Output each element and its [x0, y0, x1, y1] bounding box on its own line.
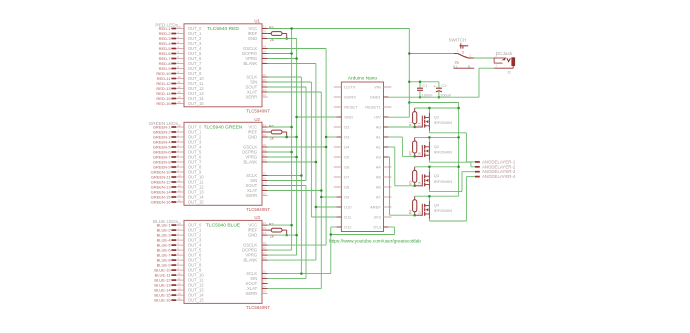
wire Q2 source	[415, 136, 459, 138]
svg-text:A5: A5	[376, 175, 382, 180]
wire U2 SCLK	[268, 175, 302, 177]
svg-text:A4: A4	[376, 165, 382, 170]
svg-text:18: 18	[263, 45, 267, 49]
wire U3 SIN	[268, 278, 306, 280]
svg-text:20: 20	[263, 128, 267, 132]
svg-text:27: 27	[263, 55, 267, 59]
svg-text:RESET: RESET	[344, 105, 358, 110]
svg-text:23: 23	[263, 158, 267, 162]
svg-text:10: 10	[177, 173, 181, 177]
svg-text:15: 15	[177, 297, 181, 301]
svg-text:D6: D6	[344, 165, 350, 170]
svg-text:VIN: VIN	[374, 85, 381, 90]
svg-text:A2: A2	[376, 145, 382, 150]
wire switch feed	[409, 53, 454, 55]
junction SCLK net	[300, 174, 303, 177]
svg-text:18: 18	[263, 241, 267, 245]
wire U2 SOUT	[268, 185, 306, 187]
junction VCC net	[290, 224, 293, 227]
svg-text:DCJack: DCJack	[496, 51, 513, 57]
svg-text:BLUE-16: BLUE-16	[154, 298, 171, 303]
svg-text:OUT_15: OUT_15	[188, 200, 204, 205]
svg-text:22: 22	[263, 133, 267, 137]
svg-text:TLC5940NT: TLC5940NT	[246, 108, 270, 113]
svg-text:Q2: Q2	[434, 144, 440, 149]
svg-text:XERR: XERR	[246, 193, 258, 198]
net MOSFET source vertical	[458, 103, 460, 197]
svg-text:25: 25	[263, 172, 267, 176]
wire Q3 drain	[428, 189, 430, 191]
junction Q2 source	[428, 136, 431, 139]
net SOUT1 to SIN2	[305, 87, 307, 181]
capacitor C2 100uF	[438, 82, 440, 88]
junction Q1 source	[428, 107, 431, 110]
wire +5V to nano	[388, 116, 409, 118]
svg-text:J1: J1	[507, 70, 512, 75]
svg-text:D10: D10	[344, 205, 352, 210]
junction caps	[419, 81, 422, 84]
svg-text:3: 3	[462, 50, 464, 54]
svg-text:A1: A1	[376, 135, 382, 140]
svg-text:ANODELAYER-4: ANODELAYER-4	[482, 174, 516, 179]
junction GND net	[295, 136, 298, 139]
svg-text:R2: R2	[409, 151, 413, 155]
wire U3 SCLK	[268, 273, 331, 275]
svg-text:25: 25	[263, 270, 267, 274]
svg-text:1k: 1k	[417, 152, 421, 156]
svg-text:28: 28	[177, 25, 181, 29]
junction R4 gate	[413, 214, 416, 217]
wire U1 DCPRG	[268, 53, 292, 55]
resistor R4 1k	[414, 196, 416, 200]
svg-text:C1: C1	[422, 83, 427, 88]
junction R5-GND	[285, 37, 288, 40]
svg-text:D7: D7	[344, 175, 350, 180]
wire U1 SCLK	[268, 76, 302, 78]
svg-text:21: 21	[263, 221, 267, 225]
wire U1 SIN	[268, 81, 312, 83]
svg-text:TLC5940 GREEN: TLC5940 GREEN	[204, 124, 243, 130]
wire U3 GND	[268, 234, 297, 236]
svg-text:26: 26	[263, 177, 267, 181]
svg-text:21: 21	[263, 25, 267, 29]
svg-text:D8: D8	[344, 185, 350, 190]
svg-text:D9: D9	[344, 195, 350, 200]
svg-text:24: 24	[263, 285, 267, 289]
svg-text:16: 16	[263, 290, 267, 294]
transistor Q1 IRF9540N	[415, 126, 423, 128]
IC U1 TLC5940 RED	[184, 24, 262, 107]
svg-text:16: 16	[263, 192, 267, 196]
wire Q2 gate drive	[388, 136, 402, 138]
junction Q3 source	[428, 166, 431, 169]
wire U3 DCPRG	[268, 249, 292, 251]
svg-text:RESET1: RESET1	[365, 105, 381, 110]
junction GND net	[295, 156, 298, 159]
resistor R7 2k	[268, 229, 272, 231]
svg-text:24: 24	[263, 88, 267, 92]
svg-text:25: 25	[263, 73, 267, 77]
junction VCC net	[290, 151, 293, 154]
svg-text:28: 28	[177, 123, 181, 127]
svg-text:BLANK: BLANK	[243, 160, 257, 165]
svg-text:17: 17	[263, 182, 267, 186]
wire U2 SIN	[268, 180, 306, 182]
svg-text:13: 13	[177, 90, 181, 94]
wire U2 GND	[268, 136, 297, 138]
wire nano D11	[311, 216, 336, 218]
svg-text:17: 17	[263, 83, 267, 87]
wire Q3 source	[415, 166, 459, 168]
wire U2 XLAT	[268, 190, 322, 192]
junction R6 GND	[285, 136, 288, 139]
svg-text:14: 14	[177, 193, 181, 197]
net BLANK vertical	[315, 64, 317, 261]
capacitor C1 100nF	[419, 82, 421, 88]
net GSCLK vertical	[325, 49, 327, 246]
svg-text:20: 20	[263, 30, 267, 34]
wire U1 VPRG	[268, 58, 297, 60]
wire U2 VCC	[268, 126, 292, 128]
svg-text:TLC5940 BLUE: TLC5940 BLUE	[206, 222, 241, 228]
IC U3 TLC5940 BLUE	[184, 220, 262, 303]
svg-text:R3: R3	[409, 180, 413, 184]
svg-text:AREF: AREF	[370, 205, 381, 210]
svg-text:11: 11	[177, 80, 180, 84]
svg-text:SWITCH: SWITCH	[449, 38, 467, 43]
node ANODELAYER-3	[475, 171, 480, 173]
junction GND net	[295, 116, 298, 119]
svg-text:A0: A0	[376, 125, 382, 130]
svg-text:TLC5940NT: TLC5940NT	[246, 305, 270, 310]
svg-text:16: 16	[263, 93, 267, 97]
resistor R6 2k	[268, 131, 272, 133]
wire Q1 drain	[428, 131, 430, 133]
svg-text:1k: 1k	[417, 210, 421, 214]
svg-text:10: 10	[177, 75, 181, 79]
svg-text:GREEN-16: GREEN-16	[151, 199, 172, 204]
switch S1	[454, 53, 458, 55]
svg-text:R1: R1	[409, 122, 413, 126]
junction Q4 source	[428, 195, 431, 198]
svg-text:28: 28	[177, 222, 181, 226]
junction BLANK net	[315, 206, 318, 209]
svg-text:Q1: Q1	[434, 114, 440, 119]
wire U1 XLAT	[268, 91, 322, 93]
wire U1 BLANK	[268, 63, 316, 65]
svg-text:BLANK: BLANK	[243, 258, 257, 263]
svg-text:+5V: +5V	[374, 115, 382, 120]
svg-text:26: 26	[263, 275, 267, 279]
junction R1 gate	[413, 126, 416, 129]
junction GSCLK net	[325, 146, 328, 149]
svg-text:17: 17	[263, 280, 267, 284]
svg-text:22: 22	[263, 231, 267, 235]
svg-text:D3: D3	[344, 135, 350, 140]
wire U3 VCC	[268, 224, 292, 226]
transistor Q3 IRF9540N	[415, 185, 423, 187]
wire GND rail	[388, 96, 479, 98]
svg-text:GND: GND	[248, 36, 257, 41]
svg-text:18: 18	[263, 143, 267, 147]
svg-text:D2: D2	[344, 125, 350, 130]
junction R6-GND	[285, 136, 288, 139]
svg-text:XERR: XERR	[246, 291, 258, 296]
wire U2 DCPRG	[268, 151, 292, 153]
wire GND to jack	[478, 68, 480, 97]
resistor R1 1k	[414, 108, 416, 112]
wire U1 VCC	[268, 28, 410, 30]
svg-text:13: 13	[177, 188, 181, 192]
wire U3 VPRG	[268, 254, 297, 256]
svg-text:19: 19	[263, 148, 267, 152]
svg-text:A6: A6	[376, 185, 382, 190]
svg-text:1: 1	[495, 64, 497, 68]
svg-text:Arduino Nano: Arduino Nano	[348, 75, 378, 81]
svg-text:11: 11	[177, 178, 180, 182]
svg-text:+: +	[434, 85, 436, 89]
svg-text:12: 12	[177, 282, 181, 286]
node ANODELAYER-2	[475, 166, 480, 168]
wire Q4 gate drive	[388, 156, 389, 158]
wire U3 BLANK	[268, 259, 316, 261]
svg-text:U2: U2	[254, 117, 260, 122]
net SIN U1 from D11	[310, 82, 312, 217]
svg-text:D1/TX: D1/TX	[344, 85, 356, 90]
svg-text:15: 15	[177, 100, 181, 104]
net SOUT2 to SIN3	[305, 186, 307, 279]
svg-text:TLC5940NT: TLC5940NT	[246, 207, 270, 212]
wire U1 GSCLK	[268, 48, 327, 50]
svg-text:13: 13	[177, 287, 181, 291]
svg-text:D5: D5	[344, 155, 350, 160]
svg-text:A7: A7	[376, 195, 382, 200]
svg-text:GND: GND	[248, 233, 257, 238]
svg-text:22: 22	[263, 35, 267, 39]
junction VCC net	[290, 126, 293, 129]
wire U2 VPRG	[268, 156, 297, 158]
svg-text:D4: D4	[344, 145, 350, 150]
junction GND net	[295, 234, 298, 237]
transistor Q2 IRF9540N	[415, 155, 423, 157]
svg-text:23: 23	[263, 60, 267, 64]
svg-text:26: 26	[263, 78, 267, 82]
svg-text:OUT_15: OUT_15	[188, 101, 204, 106]
svg-text:D13: D13	[373, 225, 381, 230]
net +5V rail vertical	[408, 29, 410, 118]
svg-text:D11: D11	[344, 215, 352, 220]
svg-text:1k: 1k	[417, 122, 421, 126]
wire jack GND	[479, 67, 494, 69]
wire U2 BLANK	[268, 161, 316, 163]
wire Q4 drain	[428, 219, 430, 221]
svg-text:IRF9540N: IRF9540N	[434, 149, 452, 154]
net XLAT vertical	[320, 92, 322, 289]
svg-text:GND: GND	[344, 115, 353, 120]
svg-text:14: 14	[177, 292, 181, 296]
svg-text:Q4: Q4	[434, 203, 440, 208]
svg-text:12: 12	[177, 85, 181, 89]
svg-text:IRF9540N: IRF9540N	[434, 208, 452, 213]
svg-text:23: 23	[263, 256, 267, 260]
junction +5V rail	[408, 52, 411, 55]
wire nano GND	[297, 116, 337, 118]
wire nano D9 XLAT	[321, 196, 336, 198]
svg-text:19: 19	[263, 50, 267, 54]
svg-text:C2: C2	[441, 83, 446, 88]
junction GND net	[295, 57, 298, 60]
wire Q1 gate drive	[388, 126, 414, 128]
svg-text:2: 2	[470, 53, 472, 57]
wire +5V rail A	[409, 102, 458, 104]
svg-text:19: 19	[263, 246, 267, 250]
resistor R5 2k	[268, 33, 272, 35]
junction BLANK net	[315, 161, 318, 164]
wire U3 XLAT	[268, 288, 322, 290]
wire Q1 source	[415, 107, 459, 109]
wire nano D10 BLANK	[316, 206, 337, 208]
svg-text:OUT_15: OUT_15	[188, 298, 204, 303]
net GND vertical	[296, 39, 298, 256]
wire switch to jack	[474, 57, 495, 59]
wire cap top rail	[409, 81, 439, 83]
svg-text:https://www.youtube.com/user/g: https://www.youtube.com/user/greatscottl…	[329, 239, 421, 245]
svg-text:BLANK: BLANK	[243, 61, 257, 66]
net VCC vertical	[291, 29, 293, 251]
svg-text:21: 21	[263, 123, 267, 127]
svg-text:IRF9540N: IRF9540N	[434, 179, 452, 184]
svg-text:A3: A3	[376, 155, 382, 160]
junction VCC net	[290, 27, 293, 30]
wire nano D3 GSCLK	[326, 136, 337, 138]
svg-text:3V3: 3V3	[374, 215, 382, 220]
wire Q4 source	[415, 195, 459, 197]
node ANODELAYER-4	[475, 176, 480, 178]
svg-text:14: 14	[177, 95, 181, 99]
svg-text:U1: U1	[254, 19, 260, 24]
svg-text:24: 24	[263, 187, 267, 191]
svg-text:20: 20	[263, 226, 267, 230]
node ANODELAYER-1	[475, 161, 480, 163]
svg-text:11: 11	[177, 277, 180, 281]
svg-text:TLC5940 RED: TLC5940 RED	[207, 26, 239, 32]
svg-text:1k: 1k	[417, 181, 421, 185]
svg-text:R4: R4	[409, 210, 413, 214]
wire U1 SOUT	[268, 86, 306, 88]
junction R3 gate	[413, 185, 416, 188]
svg-text:27: 27	[263, 153, 267, 157]
junction GSCLK net	[325, 136, 328, 139]
junction XLAT net	[320, 189, 323, 192]
svg-text:1: 1	[457, 48, 459, 52]
svg-text:IRF9540N: IRF9540N	[434, 120, 452, 125]
svg-text:10: 10	[177, 272, 181, 276]
switch unused throw	[454, 67, 475, 69]
svg-text:Q3: Q3	[434, 173, 440, 178]
svg-text:U3: U3	[254, 215, 260, 220]
junction R7-GND	[285, 234, 288, 237]
wire U2 GSCLK	[268, 146, 327, 148]
resistor R2 1k	[414, 137, 416, 141]
junction VCC net	[290, 52, 293, 55]
IC Arduino Nano	[341, 82, 383, 232]
svg-text:XERR: XERR	[246, 95, 258, 100]
svg-text:D12: D12	[344, 225, 352, 230]
junction R2 gate	[413, 155, 416, 158]
wire SCLK return to D12 and D13	[330, 227, 332, 274]
transistor Q4 IRF9540N	[415, 214, 423, 216]
wire Q3 gate drive	[388, 146, 394, 148]
svg-text:15: 15	[177, 198, 181, 202]
svg-text:27: 27	[263, 251, 267, 255]
wire Q2 drain	[428, 160, 430, 162]
svg-text:GND1: GND1	[370, 95, 382, 100]
resistor R3 1k	[414, 167, 416, 171]
svg-text:12: 12	[177, 183, 181, 187]
svg-text:RED-16: RED-16	[156, 101, 171, 106]
wire U3 GSCLK	[268, 244, 327, 246]
svg-text:GND: GND	[248, 135, 257, 140]
IC U2 TLC5940 GREEN	[184, 122, 262, 205]
net SCLK vertical	[300, 77, 302, 274]
svg-text:D0/RX: D0/RX	[344, 95, 356, 100]
wire U1 GND	[268, 38, 297, 40]
